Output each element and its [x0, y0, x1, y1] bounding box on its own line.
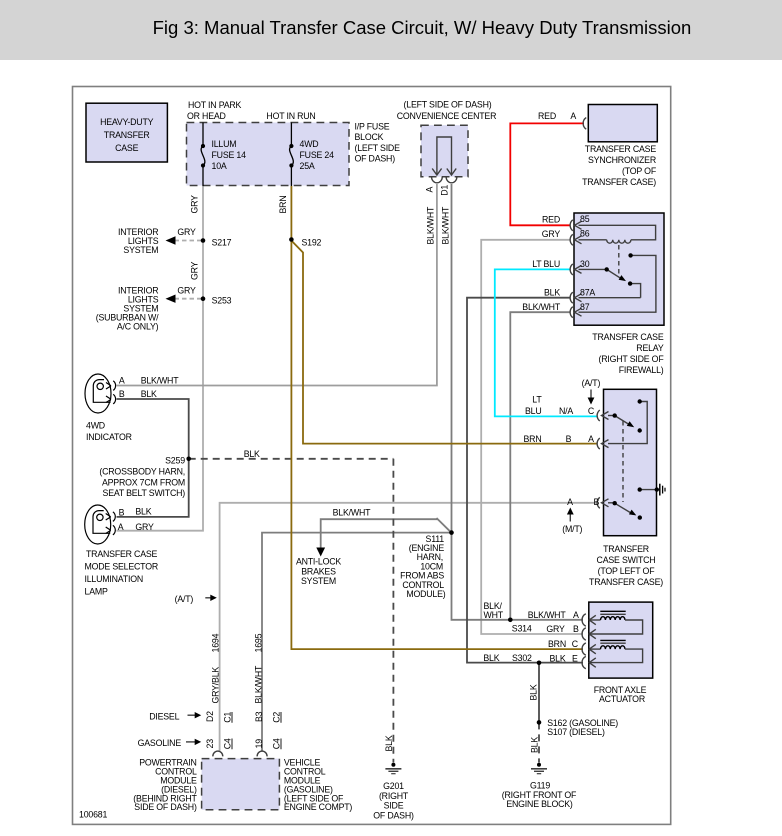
svg-text:S253: S253 [212, 296, 232, 306]
svg-text:LT: LT [532, 395, 542, 405]
svg-text:GRY: GRY [177, 227, 196, 237]
svg-text:BLK: BLK [544, 288, 560, 298]
svg-text:ENGINE BLOCK): ENGINE BLOCK) [506, 799, 573, 809]
svg-text:CASE: CASE [115, 143, 138, 153]
svg-text:BLK/WHT: BLK/WHT [333, 508, 372, 518]
svg-text:(RIGHT SIDE OF: (RIGHT SIDE OF [599, 354, 665, 364]
svg-text:B3: B3 [254, 711, 264, 722]
svg-text:C: C [588, 406, 595, 416]
svg-text:30: 30 [580, 259, 590, 269]
svg-text:RED: RED [538, 111, 556, 121]
svg-text:TRANSFER CASE: TRANSFER CASE [86, 549, 158, 559]
svg-text:TRANSFER CASE: TRANSFER CASE [592, 332, 664, 342]
svg-text:OF DASH): OF DASH) [373, 810, 414, 820]
svg-text:BLK: BLK [141, 389, 157, 399]
svg-text:SIDE OF DASH): SIDE OF DASH) [134, 802, 197, 812]
svg-text:BLU: BLU [525, 406, 542, 416]
svg-text:I/P FUSE: I/P FUSE [355, 121, 390, 131]
svg-text:85: 85 [580, 214, 590, 224]
svg-text:A: A [567, 497, 573, 507]
svg-text:TRANSFER CASE: TRANSFER CASE [585, 144, 657, 154]
svg-text:Fig 3: Manual Transfer Case Ci: Fig 3: Manual Transfer Case Circuit, W/ … [153, 17, 692, 38]
svg-text:D2: D2 [205, 711, 215, 722]
svg-text:C2: C2 [272, 712, 282, 723]
svg-text:BLK: BLK [384, 735, 394, 751]
svg-text:D1: D1 [440, 185, 450, 196]
svg-text:(A/T): (A/T) [582, 378, 601, 388]
svg-text:B: B [593, 497, 599, 507]
svg-text:A: A [118, 522, 124, 532]
svg-text:23: 23 [205, 739, 215, 749]
svg-text:S314: S314 [512, 623, 532, 633]
svg-text:ILLUM: ILLUM [212, 139, 237, 149]
svg-text:BLK/WHT: BLK/WHT [441, 206, 451, 245]
svg-text:SYNCHRONIZER: SYNCHRONIZER [588, 155, 656, 165]
svg-text:C: C [572, 639, 579, 649]
svg-text:OF DASH): OF DASH) [355, 154, 396, 164]
svg-text:S192: S192 [302, 237, 322, 247]
svg-text:(TOP LEFT OF: (TOP LEFT OF [598, 566, 656, 576]
svg-text:WHT: WHT [484, 610, 504, 620]
svg-text:RELAY: RELAY [636, 343, 664, 353]
svg-text:LAMP: LAMP [85, 586, 108, 596]
svg-text:4WD: 4WD [300, 139, 319, 149]
svg-text:B: B [119, 389, 125, 399]
svg-text:INDICATOR: INDICATOR [86, 432, 132, 442]
svg-text:ANTI-LOCK: ANTI-LOCK [296, 557, 341, 567]
svg-text:86: 86 [580, 229, 590, 239]
svg-text:1694: 1694 [211, 633, 221, 652]
svg-text:BLK/WHT: BLK/WHT [141, 375, 180, 385]
svg-text:100681: 100681 [79, 810, 107, 820]
svg-text:SEAT BELT SWITCH): SEAT BELT SWITCH) [103, 488, 186, 498]
svg-text:GRY: GRY [190, 195, 200, 214]
svg-text:SYSTEM: SYSTEM [123, 245, 158, 255]
svg-text:A: A [573, 610, 579, 620]
svg-text:GRY: GRY [546, 624, 565, 634]
svg-text:(M/T): (M/T) [562, 524, 582, 534]
svg-text:TRANSFER: TRANSFER [104, 130, 150, 140]
svg-text:(LEFT SIDE: (LEFT SIDE [355, 143, 401, 153]
svg-text:S217: S217 [212, 237, 232, 247]
svg-text:BLOCK: BLOCK [355, 132, 384, 142]
svg-text:ILLUMINATION: ILLUMINATION [85, 574, 144, 584]
svg-text:FUSE 14: FUSE 14 [212, 150, 247, 160]
svg-text:ENGINE COMPT): ENGINE COMPT) [284, 802, 353, 812]
svg-text:BLK: BLK [529, 684, 539, 700]
svg-text:E: E [572, 653, 578, 663]
svg-text:C1: C1 [223, 712, 233, 723]
svg-text:TRANSFER CASE): TRANSFER CASE) [582, 177, 656, 187]
svg-text:1695: 1695 [254, 633, 264, 652]
svg-text:A: A [588, 434, 594, 444]
svg-text:MODULE): MODULE) [406, 589, 445, 599]
svg-text:FUSE 24: FUSE 24 [300, 150, 335, 160]
svg-text:BLK/WHT: BLK/WHT [528, 610, 567, 620]
svg-text:OR HEAD: OR HEAD [187, 111, 226, 121]
svg-text:TRANSFER: TRANSFER [603, 544, 649, 554]
svg-text:B: B [119, 507, 125, 517]
svg-text:RED: RED [542, 215, 560, 225]
svg-text:HEAVY-DUTY: HEAVY-DUTY [100, 117, 154, 127]
svg-text:GRY: GRY [177, 286, 196, 296]
svg-text:DIESEL: DIESEL [149, 711, 179, 721]
svg-text:GRY/BLK: GRY/BLK [211, 667, 221, 704]
svg-text:GRY: GRY [542, 229, 561, 239]
svg-text:SIDE: SIDE [384, 800, 404, 810]
svg-text:19: 19 [254, 739, 264, 749]
svg-text:A: A [425, 187, 435, 193]
svg-text:BLK/WHT: BLK/WHT [426, 206, 436, 245]
svg-text:CASE SWITCH: CASE SWITCH [597, 555, 656, 565]
svg-text:BLK: BLK [549, 653, 565, 663]
svg-text:TRANSFER CASE): TRANSFER CASE) [589, 577, 663, 587]
svg-text:B: B [573, 624, 579, 634]
svg-text:BLK: BLK [135, 507, 151, 517]
svg-text:HOT IN PARK: HOT IN PARK [188, 100, 242, 110]
svg-text:MODE SELECTOR: MODE SELECTOR [85, 561, 159, 571]
svg-text:A/C ONLY): A/C ONLY) [117, 322, 159, 332]
svg-text:S259: S259 [165, 456, 185, 466]
svg-text:87A: 87A [580, 287, 595, 297]
svg-text:G201: G201 [383, 781, 404, 791]
svg-text:(A/T): (A/T) [175, 594, 194, 604]
svg-text:SYSTEM: SYSTEM [301, 576, 336, 586]
svg-text:BLK/WHT: BLK/WHT [254, 665, 264, 704]
svg-text:BLK: BLK [530, 737, 540, 753]
svg-text:CONVENIENCE CENTER: CONVENIENCE CENTER [397, 111, 497, 121]
svg-text:HOT IN RUN: HOT IN RUN [266, 111, 315, 121]
svg-text:B: B [566, 434, 572, 444]
svg-text:S107 (DIESEL): S107 (DIESEL) [547, 727, 605, 737]
svg-text:C4: C4 [272, 738, 282, 749]
svg-text:A: A [570, 111, 576, 121]
svg-text:S302: S302 [512, 653, 532, 663]
svg-text:C4: C4 [223, 738, 233, 749]
svg-text:87: 87 [580, 302, 590, 312]
svg-text:10A: 10A [212, 161, 227, 171]
svg-text:LT BLU: LT BLU [532, 259, 560, 269]
svg-text:GASOLINE: GASOLINE [138, 738, 182, 748]
svg-text:4WD: 4WD [86, 421, 105, 431]
svg-text:GRY: GRY [135, 522, 154, 532]
svg-text:BRN: BRN [524, 434, 542, 444]
svg-text:FIREWALL): FIREWALL) [619, 365, 664, 375]
svg-text:BRN: BRN [278, 196, 288, 214]
svg-text:N/A: N/A [559, 406, 573, 416]
svg-text:ACTUATOR: ACTUATOR [599, 694, 645, 704]
svg-text:A: A [119, 375, 125, 385]
svg-text:BRAKES: BRAKES [301, 566, 336, 576]
svg-text:(TOP OF: (TOP OF [622, 166, 657, 176]
svg-text:APPROX 7CM FROM: APPROX 7CM FROM [102, 477, 185, 487]
svg-text:(CROSSBODY HARN,: (CROSSBODY HARN, [99, 467, 185, 477]
svg-text:BLK: BLK [483, 653, 499, 663]
svg-text:BLK: BLK [244, 449, 260, 459]
svg-text:BLK/WHT: BLK/WHT [522, 302, 561, 312]
svg-text:BRN: BRN [548, 639, 566, 649]
svg-text:(LEFT SIDE OF DASH): (LEFT SIDE OF DASH) [404, 99, 492, 109]
svg-text:25A: 25A [300, 161, 315, 171]
svg-text:GRY: GRY [190, 261, 200, 280]
